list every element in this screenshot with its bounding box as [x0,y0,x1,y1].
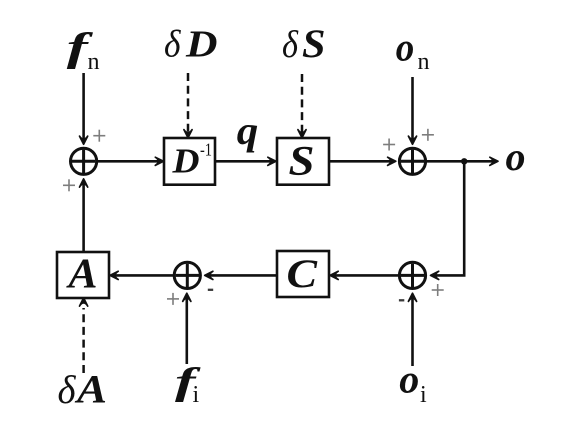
sign + (top right of S1) [93,130,105,142]
summer S2 (top right adder) [399,148,425,174]
svg-text:D: D [185,24,218,66]
summer S1 (top left adder) [71,148,97,174]
svg-text:δ: δ [282,24,299,66]
wire S to summer S2 [329,160,391,163]
sign + (top right of S2) [422,129,434,141]
wire o_n to summer S2 [411,77,414,140]
feedback wire from node down and left to summer S4 [436,161,464,275]
svg-text:o: o [506,134,526,179]
sign - (bottom left of S4) [399,299,404,301]
svg-text:A: A [65,252,97,298]
sign - (right of S3) [208,289,213,291]
svg-text:q: q [237,108,258,153]
sign + (right of S4) [432,284,444,296]
summer S4 (bottom right adder) [399,262,425,288]
svg-text:D: D [171,141,199,180]
wire summer S1 to D [97,160,159,163]
svg-text:o: o [396,25,415,70]
dashed wire deltaD to D [187,73,190,134]
wire A to summer S1 [82,184,85,252]
wire D to S [215,160,271,163]
wire C to summer S3 [210,274,277,277]
svg-text:C: C [287,251,319,296]
wire summer S2 to output o [426,160,493,163]
svg-text:-1: -1 [200,140,212,160]
svg-text:δ: δ [164,24,182,66]
block C [277,251,329,297]
block D^-1 [164,138,215,185]
node junction dot [461,158,467,164]
svg-text:o: o [399,356,419,401]
wire f_n to summer S1 [82,73,85,140]
wire o_i to summer S4 [411,298,414,366]
svg-text:δ: δ [58,367,77,412]
svg-text:S: S [289,139,315,185]
svg-text:i: i [193,382,200,408]
svg-text:A: A [74,366,107,411]
wire f_i to summer S3 [186,298,189,364]
summer S3 (bottom middle adder) [174,262,200,288]
svg-text:n: n [418,49,430,75]
dashed wire deltaA to A [82,308,85,373]
dashed wire deltaS to S [301,74,304,134]
sign + (left of S2) [383,139,395,151]
svg-text:i: i [420,382,427,408]
svg-text:S: S [302,21,326,66]
wire summer S3 to A [115,274,174,277]
svg-text:n: n [88,49,100,75]
sign + (bottom left of S1) [63,179,75,191]
block A [57,252,109,298]
sign + (bottom left of S3) [167,293,179,305]
wire summer S4 to C [335,274,399,277]
block S [277,138,329,185]
